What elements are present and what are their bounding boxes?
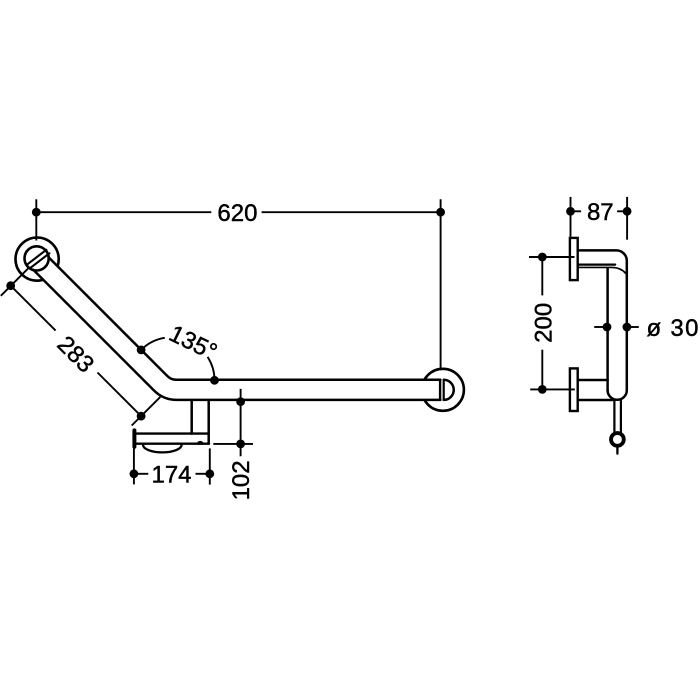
support post left edge: [190, 401, 193, 434]
dot dia30 left: [603, 323, 612, 332]
dot 200 bottom: [538, 385, 547, 394]
hanger ring: [611, 433, 624, 446]
svg-text:174: 174: [151, 462, 191, 489]
support post right edge: [207, 401, 210, 444]
dim 135 arc lower segment: [208, 357, 215, 380]
top arm silhouette line: [578, 267, 626, 273]
svg-text:102: 102: [228, 460, 255, 500]
holder strip bottom edge: [136, 443, 209, 445]
dim 102 extension: [213, 443, 253, 445]
top wall plate: [570, 238, 578, 280]
dim 174 line left segment: [134, 473, 148, 475]
dim 174 extension left: [133, 448, 135, 484]
bottom connector bottom edge: [578, 399, 613, 402]
svg-text:200: 200: [531, 303, 558, 343]
dim dia30 line right segment: [627, 326, 639, 328]
dot 135 on horizontal bar: [210, 376, 219, 385]
paper roll arc: [143, 445, 182, 452]
dot 87 left: [566, 207, 575, 216]
bottom connector top edge: [578, 379, 608, 382]
bar right end cap dome: [444, 380, 454, 400]
bar right end cap line 2: [443, 380, 445, 400]
svg-text:620: 620: [217, 200, 257, 227]
dot 87 right: [623, 207, 632, 216]
top arm top edge and tube outer corner: [578, 250, 627, 390]
dot 283 upper: [6, 281, 15, 290]
dot 283 lower: [137, 412, 146, 421]
dot 102 lower: [236, 440, 245, 449]
dim 283 extension lower: [132, 397, 161, 426]
screw bump on strip: [197, 441, 204, 445]
dot 620 left: [32, 208, 41, 217]
dim 174 line right segment: [196, 473, 210, 475]
top arm bottom edge: [578, 264, 616, 266]
dim 283 extension upper: [1, 267, 30, 296]
hanger rod right edge: [620, 400, 622, 433]
bar right end cap line 1: [439, 380, 441, 400]
dot dia30 right: [623, 323, 632, 332]
dim 283 line lower segment: [98, 373, 142, 417]
dim 620 extension left: [35, 199, 37, 240]
dim 200 line top segment: [541, 257, 543, 295]
grab bar top edge (angled then horizontal): [49, 257, 441, 379]
dim 200 extension top: [529, 256, 575, 258]
bottom wall plate: [570, 368, 578, 411]
dim 87 extension right: [626, 197, 628, 240]
dim 102 line: [240, 389, 242, 456]
holder strip top edge: [136, 432, 209, 434]
svg-text:ø 30: ø 30: [647, 315, 700, 342]
holder strip left end cap: [132, 430, 136, 446]
dot 200 top: [538, 253, 547, 262]
dim dia30 line left segment: [594, 326, 607, 328]
dim 200 extension bottom: [530, 388, 575, 390]
right wall flange outer circle (drawn under bar): [422, 369, 464, 411]
DIMENSIONS: [1, 197, 639, 485]
hanger rod left edge: [613, 400, 615, 433]
dim 87 line left segment: [571, 210, 582, 212]
hanger ring tail: [616, 446, 618, 454]
dim 174 extension right: [209, 448, 211, 484]
dot 620 right: [436, 208, 445, 217]
dot 135 on angled bar: [137, 346, 146, 355]
vertical tube left edge: [606, 268, 609, 390]
dim 620 line right segment: [262, 211, 441, 213]
tube end cap edge line 2: [30, 253, 50, 268]
dim 620 extension right: [440, 199, 442, 370]
left flange tube end cap circle: [24, 246, 48, 270]
grab bar bottom edge (angled then horizontal): [34, 270, 441, 400]
dim 283 line upper segment: [11, 286, 56, 331]
svg-text:87: 87: [587, 199, 614, 226]
dot 102 upper: [236, 397, 245, 406]
left wall flange outer circle: [15, 238, 58, 281]
dim 87 extension left: [570, 197, 572, 237]
dot 174 left: [130, 469, 139, 478]
dim 620 line left segment: [36, 211, 211, 213]
tube end cap edge line 1: [27, 250, 47, 265]
vertical tube bottom cap arc: [608, 390, 627, 400]
grab bar white body fill: [34, 257, 454, 400]
dim 200 line bottom segment: [541, 350, 543, 390]
dim 135 arc upper segment: [141, 338, 165, 350]
dot 174 right: [205, 469, 214, 478]
dim 87 line right segment: [617, 210, 627, 212]
